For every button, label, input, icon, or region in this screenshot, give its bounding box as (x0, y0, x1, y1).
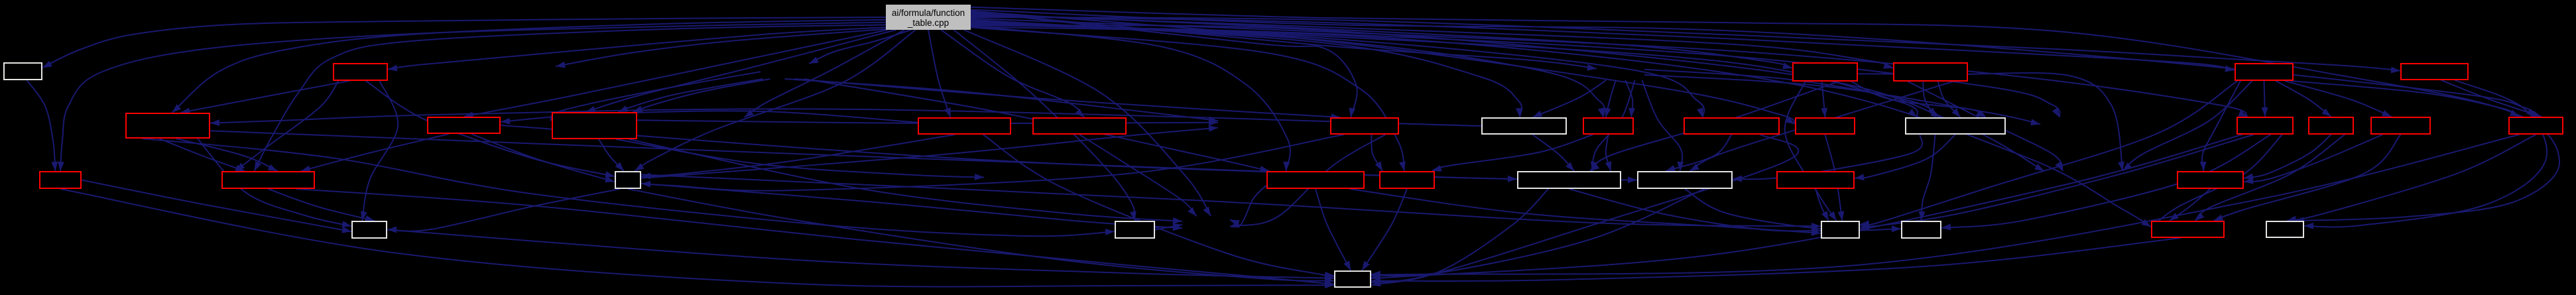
svg-text:ai/formula/function: ai/formula/function (892, 8, 965, 18)
svg-text:_table.cpp: _table.cpp (907, 18, 949, 28)
